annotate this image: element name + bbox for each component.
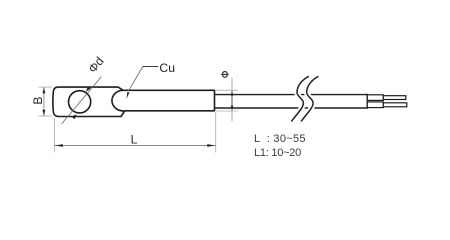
- dimension B arrowheads: [43, 87, 46, 116]
- svg-text:Cu: Cu: [159, 61, 175, 75]
- svg-text:L1: 10~20: L1: 10~20: [254, 147, 301, 159]
- dimension phi line: [231, 78, 233, 122]
- cable top line: [215, 94, 368, 96]
- dimension L arrowheads: [55, 144, 215, 147]
- svg-text:B: B: [31, 97, 45, 105]
- dimension B line: [43, 87, 45, 116]
- svg-text:Φd: Φd: [85, 54, 106, 75]
- label phi (drawn): [221, 72, 228, 78]
- dimension L extension lines: [54, 113, 215, 153]
- cable bottom line: [215, 107, 368, 109]
- dimension phi arrowheads: [231, 90, 233, 111]
- dimension L line: [54, 145, 215, 147]
- phi-d arrowheads: [72, 87, 91, 120]
- dimension B extension lines: [39, 87, 53, 116]
- Cu leader arrowhead: [126, 92, 129, 99]
- cable jacket end: [366, 94, 368, 109]
- leader line Cu: [129, 67, 159, 91]
- wire 2 insulation: [367, 102, 383, 108]
- wire 1 stripped end: [383, 96, 406, 100]
- wire 2 stripped end: [383, 103, 407, 107]
- break symbol (two squiggles): [291, 76, 318, 121]
- dimension phi extension lines: [216, 90, 238, 111]
- hole circle (phi-d): [69, 91, 91, 113]
- svg-text:L : 30~55: L : 30~55: [254, 133, 306, 145]
- lug plate: [53, 87, 125, 116]
- svg-text:L: L: [131, 133, 138, 147]
- leader line phi-d: [62, 77, 102, 124]
- wire 1 insulation: [367, 95, 383, 101]
- Cu tube: [112, 90, 215, 111]
